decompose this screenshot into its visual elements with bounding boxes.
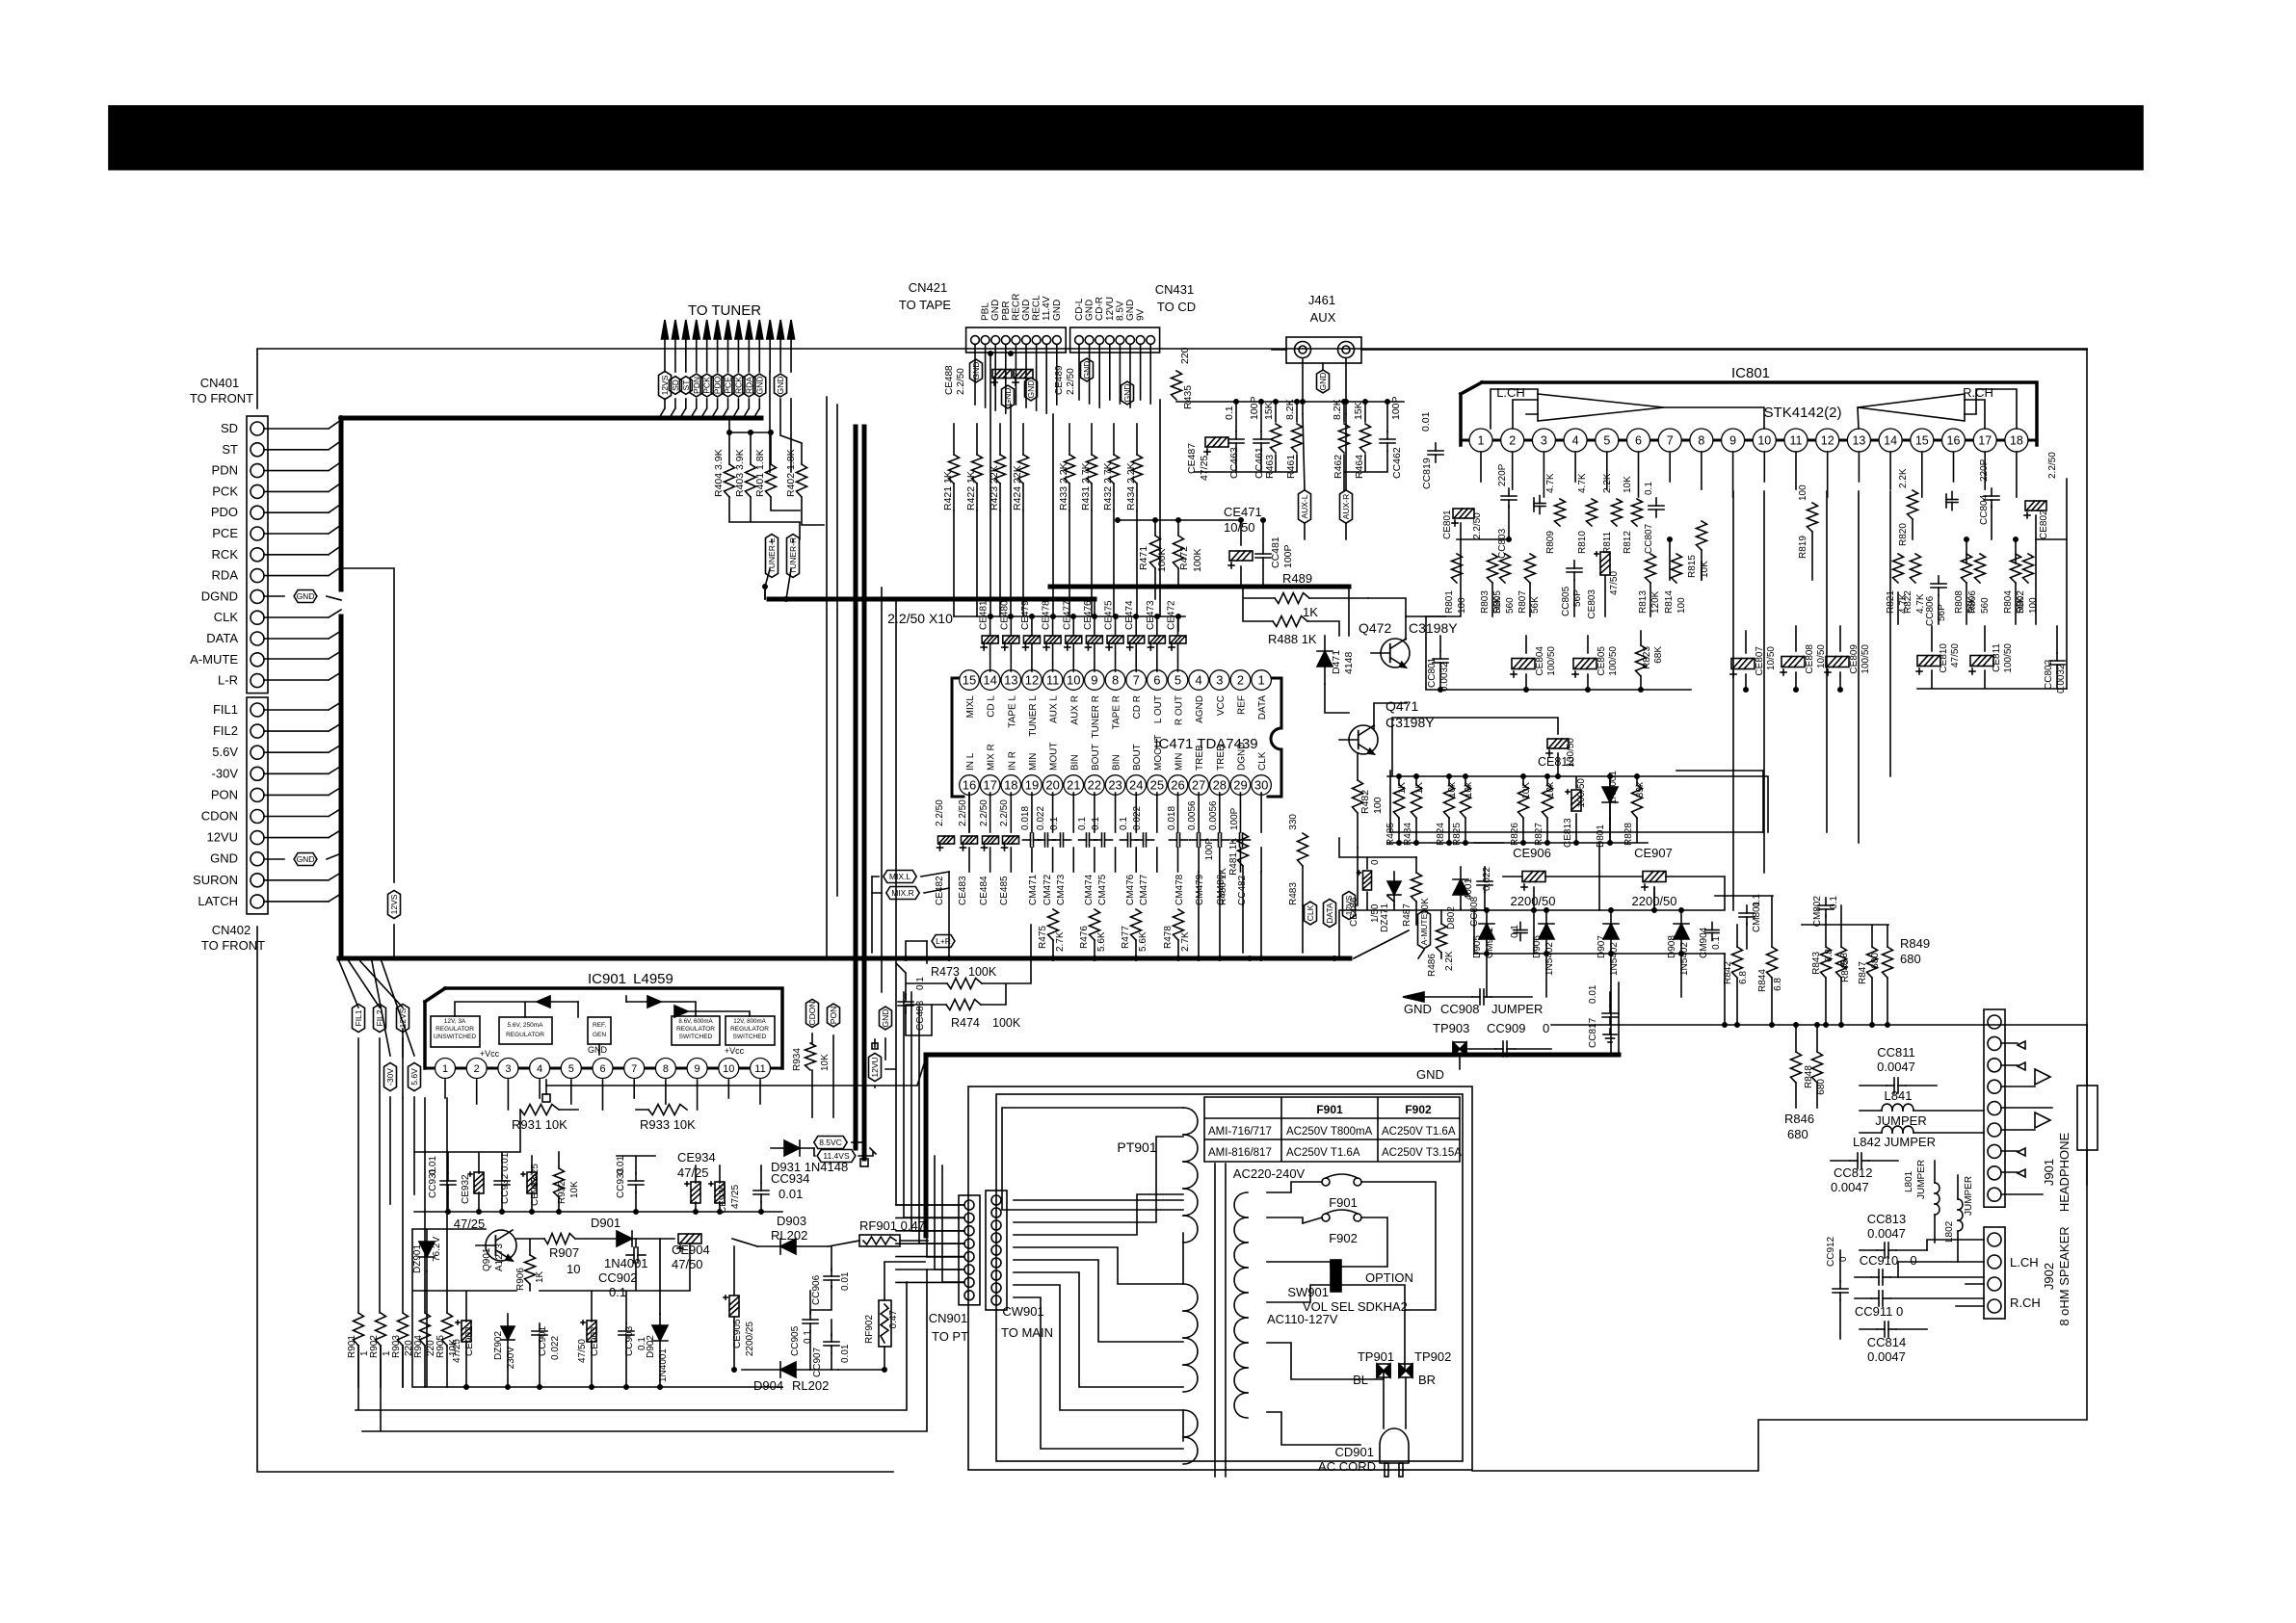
svg-text:2: 2: [474, 1063, 480, 1075]
svg-text:-30V: -30V: [385, 1068, 395, 1086]
svg-text:CE808: CE808: [1805, 644, 1815, 674]
svg-text:19: 19: [1025, 778, 1039, 793]
resistor R901: [354, 1313, 364, 1346]
wire flag fan: [339, 961, 414, 1056]
svg-text:AC250V T3.15A: AC250V T3.15A: [1382, 1147, 1462, 1159]
fuse F902: [1322, 1214, 1330, 1221]
resistor R404: [725, 464, 735, 497]
svg-text:11.4V: 11.4V: [1042, 296, 1052, 321]
capacitor CC481: [1255, 553, 1271, 555]
fuse F901: [1322, 1178, 1330, 1186]
svg-text:0.1: 0.1: [1091, 817, 1101, 830]
resistor R803: [1488, 554, 1498, 583]
svg-text:BL: BL: [1353, 1373, 1368, 1387]
svg-text:R473: R473: [931, 965, 960, 979]
svg-text:IC901: IC901: [588, 971, 626, 987]
svg-text:12: 12: [1821, 434, 1834, 448]
svg-text:GND: GND: [210, 851, 238, 866]
svg-text:9: 9: [1091, 673, 1097, 688]
svg-text:2.2/50: 2.2/50: [1472, 512, 1483, 539]
svg-text:100: 100: [1372, 797, 1384, 814]
svg-text:CC912: CC912: [1826, 1236, 1836, 1267]
svg-text:0.1: 0.1: [1644, 482, 1654, 495]
ground flag CN421-1: [970, 359, 983, 382]
svg-text:CD-L: CD-L: [1074, 298, 1085, 321]
svg-text:AGND: AGND: [1195, 695, 1205, 723]
capacitor CE801: [1453, 509, 1474, 518]
wire CN401 signal leads: [264, 420, 341, 429]
svg-text:R814: R814: [1664, 590, 1675, 614]
resistor R488: [1273, 616, 1307, 627]
svg-text:Q901: Q901: [482, 1247, 492, 1271]
resistor R422: [972, 455, 983, 484]
svg-text:0.01: 0.01: [779, 1187, 803, 1201]
svg-text:2.2/50: 2.2/50: [956, 368, 966, 395]
svg-text:MIN: MIN: [1174, 753, 1185, 771]
svg-text:5.6V: 5.6V: [409, 1068, 419, 1086]
svg-text:R812: R812: [1623, 531, 1633, 554]
capacitor CC463: [1228, 438, 1244, 440]
capacitor CE807: [1731, 659, 1755, 669]
svg-text:100P: 100P: [1229, 807, 1240, 830]
coil PT901 primary-2: [1183, 1284, 1198, 1311]
svg-text:CE484: CE484: [979, 876, 990, 905]
net flag 5.6V: [409, 1062, 421, 1090]
svg-text:CC819: CC819: [1421, 458, 1433, 489]
svg-text:CM479: CM479: [1195, 874, 1205, 905]
svg-text:8 oHM SPEAKER: 8 oHM SPEAKER: [2057, 1226, 2072, 1325]
capacitor CC807: [1649, 505, 1664, 507]
svg-text:RDA: RDA: [212, 568, 239, 583]
svg-text:F902: F902: [1329, 1231, 1358, 1245]
capacitor CM801: [1739, 912, 1755, 914]
svg-text:REGULATOR: REGULATOR: [506, 1032, 544, 1038]
svg-text:100/50: 100/50: [2003, 643, 2014, 673]
capacitor CE902: [462, 1321, 471, 1342]
testpoint TP902: [1399, 1364, 1406, 1377]
svg-text:18: 18: [1004, 778, 1017, 793]
svg-text:R807: R807: [1517, 590, 1528, 614]
svg-text:CE487: CE487: [1186, 443, 1198, 474]
wire bus I: [924, 1055, 929, 1236]
svg-text:29: 29: [1233, 778, 1247, 793]
connector J461: [1286, 337, 1361, 363]
svg-text:R849: R849: [1900, 936, 1930, 951]
ic-box regulator2: [499, 1017, 552, 1044]
svg-text:GND: GND: [1122, 384, 1132, 403]
svg-text:CC804: CC804: [1979, 494, 1990, 525]
svg-text:23: 23: [1108, 778, 1122, 793]
svg-text:CM475: CM475: [1097, 874, 1108, 905]
svg-text:R907: R907: [549, 1245, 579, 1260]
wire q471 links: [1243, 684, 1358, 953]
svg-text:DZ471: DZ471: [1380, 903, 1390, 932]
svg-text:-30V: -30V: [212, 766, 239, 780]
svg-text:2.2K: 2.2K: [1898, 468, 1909, 488]
svg-text:680: 680: [1900, 952, 1921, 966]
svg-text:2.2/50: 2.2/50: [2047, 452, 2058, 479]
svg-text:CC807: CC807: [1644, 523, 1654, 554]
capacitor CC931: [440, 1180, 456, 1182]
svg-text:FIL2: FIL2: [213, 723, 238, 738]
capacitors CM471-CC482 row: [1030, 833, 1032, 847]
svg-text:CE802: CE802: [2039, 510, 2049, 539]
svg-text:R461: R461: [1285, 455, 1297, 479]
svg-text:TREB: TREB: [1216, 745, 1227, 771]
svg-text:R403 3.9K: R403 3.9K: [734, 449, 746, 497]
svg-text:1: 1: [442, 1063, 448, 1075]
svg-text:REF,: REF,: [593, 1022, 606, 1029]
wire J902 leads: [1898, 1240, 1984, 1306]
svg-text:12V, 3A: 12V, 3A: [444, 1018, 466, 1025]
wire R471 top: [1118, 520, 1263, 587]
svg-text:100/50: 100/50: [1608, 646, 1619, 676]
wire R40x bottom: [729, 497, 800, 539]
resistor R802: [2023, 554, 2034, 583]
svg-text:0.0056: 0.0056: [1208, 800, 1219, 830]
svg-text:BIN: BIN: [1069, 754, 1080, 771]
svg-text:PT901: PT901: [1117, 1139, 1156, 1155]
svg-text:GND: GND: [297, 591, 315, 601]
svg-text:FIL2: FIL2: [375, 1009, 384, 1026]
svg-text:TREB: TREB: [1195, 745, 1205, 771]
wire y1127: [546, 1058, 926, 1086]
svg-text:SW901: SW901: [1287, 1285, 1329, 1299]
resistor R806: [1975, 554, 1986, 583]
resistor R907: [544, 1234, 575, 1244]
svg-text:220: 220: [1179, 347, 1191, 364]
jack symbol: [2077, 1086, 2098, 1150]
svg-text:D907: D907: [1597, 935, 1607, 958]
svg-text:7: 7: [1667, 434, 1674, 448]
svg-text:+Vcc: +Vcc: [725, 1046, 745, 1056]
svg-text:REF: REF: [1236, 695, 1247, 715]
core PT901: [1214, 1164, 1216, 1477]
svg-text:RDA: RDA: [744, 377, 753, 394]
svg-text:12VU: 12VU: [1105, 297, 1116, 321]
svg-text:FIL1: FIL1: [213, 702, 238, 717]
svg-text:TO FRONT: TO FRONT: [201, 938, 265, 953]
svg-text:D901: D901: [591, 1216, 620, 1230]
svg-text:2: 2: [1237, 673, 1244, 688]
svg-text:CC805: CC805: [1561, 586, 1571, 616]
svg-text:GND: GND: [1026, 380, 1036, 399]
svg-text:R462: R462: [1333, 455, 1344, 479]
svg-text:PCE: PCE: [212, 526, 238, 540]
wire tuner bus links: [765, 587, 1349, 636]
svg-text:DATA: DATA: [1325, 903, 1334, 924]
svg-text:7: 7: [631, 1063, 637, 1075]
diode DZ901: [419, 1242, 435, 1257]
diode D906: [1539, 924, 1554, 939]
svg-text:TUNER R: TUNER R: [1091, 695, 1101, 738]
net flag TUNER-R: [787, 535, 800, 578]
svg-text:20: 20: [1045, 778, 1059, 793]
svg-text:0.01: 0.01: [428, 1156, 438, 1175]
svg-text:GND: GND: [1404, 1002, 1432, 1016]
svg-text:CC910: CC910: [1860, 1253, 1898, 1268]
capacitor CC804: [1984, 495, 1999, 497]
capacitor CC905: [803, 1319, 818, 1321]
svg-text:R801: R801: [1444, 590, 1455, 614]
net flag AUX-L: [1299, 490, 1311, 523]
resistor R848b: [1812, 1052, 1823, 1083]
svg-text:100P: 100P: [1249, 396, 1260, 420]
svg-text:CM474: CM474: [1084, 874, 1095, 905]
svg-text:D904: D904: [753, 1378, 783, 1393]
coil PT901 primary-3: [1183, 1410, 1198, 1437]
svg-text:R811: R811: [1602, 531, 1613, 554]
node ic901 pin4 sq: [542, 1094, 550, 1102]
svg-text:F901: F901: [1329, 1195, 1358, 1210]
svg-text:9V: 9V: [1136, 308, 1147, 321]
coil PT901 secondary: [1234, 1192, 1248, 1217]
svg-text:12VU: 12VU: [206, 830, 238, 845]
testpoint TP903: [1453, 1042, 1460, 1056]
svg-text:CE483: CE483: [958, 876, 968, 905]
wire IC471 bottom leads: [968, 793, 970, 832]
svg-text:R806: R806: [1967, 590, 1978, 614]
capacitor CC909: [1502, 1041, 1504, 1057]
svg-text:DZ902: DZ902: [493, 1331, 504, 1360]
svg-text:0.022: 0.022: [1482, 867, 1492, 891]
svg-text:17: 17: [983, 778, 996, 793]
svg-text:0.1: 0.1: [637, 1337, 647, 1350]
connector CN421: [966, 327, 1067, 353]
svg-text:AUX: AUX: [1310, 310, 1336, 325]
svg-text:6.8: 6.8: [1824, 949, 1834, 962]
diode D931: [784, 1140, 800, 1156]
svg-text:R810: R810: [1577, 531, 1588, 554]
resistor R807: [1525, 554, 1536, 583]
capacitor CC817: [1602, 1012, 1618, 1014]
svg-text:GND: GND: [990, 300, 1001, 321]
ic IC801 pins: [1461, 439, 2037, 442]
resistor R481: [1238, 833, 1249, 866]
wire J461 leads: [1272, 350, 2087, 414]
svg-text:L842 JUMPER: L842 JUMPER: [1853, 1135, 1936, 1149]
svg-text:BOUT: BOUT: [1132, 744, 1143, 771]
svg-text:MIX R: MIX R: [987, 744, 997, 771]
svg-text:GND: GND: [1052, 300, 1063, 321]
svg-text:2.7K: 2.7K: [1180, 931, 1191, 952]
svg-text:1K: 1K: [535, 1270, 545, 1283]
svg-text:2.7K: 2.7K: [1055, 931, 1066, 952]
svg-text:26: 26: [1171, 778, 1184, 793]
svg-text:10K: 10K: [1623, 476, 1633, 493]
svg-text:2.2K: 2.2K: [1602, 473, 1613, 493]
svg-text:GND: GND: [1125, 300, 1136, 321]
svg-text:R802: R802: [2016, 590, 2026, 614]
svg-text:R822: R822: [1903, 590, 1913, 614]
svg-text:15: 15: [1915, 434, 1929, 448]
svg-text:100/50: 100/50: [1566, 738, 1576, 768]
svg-text:AUX-L: AUX-L: [1300, 494, 1309, 518]
svg-text:SWITCHED: SWITCHED: [733, 1034, 767, 1040]
resistor R812: [1632, 499, 1643, 526]
svg-text:6: 6: [1153, 673, 1160, 688]
svg-text:R483: R483: [1288, 882, 1299, 905]
svg-text:GND: GND: [1416, 1067, 1444, 1082]
svg-text:R803: R803: [1480, 590, 1491, 614]
svg-text:11.4VS: 11.4VS: [823, 1151, 850, 1161]
svg-text:J902: J902: [2042, 1263, 2056, 1290]
svg-text:R421 1K: R421 1K: [942, 471, 954, 510]
ic-box refgen: [588, 1017, 611, 1044]
net flag CDON: [806, 999, 819, 1027]
resistor R474: [946, 1000, 981, 1010]
svg-text:CDON: CDON: [807, 1001, 817, 1025]
svg-text:SD: SD: [221, 421, 238, 435]
diode D902: [652, 1325, 668, 1341]
zener DZ902: [501, 1326, 515, 1340]
capacitor CC902: [633, 1247, 635, 1263]
svg-text:27: 27: [1192, 778, 1205, 793]
resistor R811: [1612, 499, 1623, 526]
svg-text:D801: D801: [1596, 825, 1606, 848]
resistor R473: [947, 979, 982, 989]
resistor R805: [1500, 554, 1511, 583]
net flag 12VU-r: [869, 1053, 882, 1081]
diode D907: [1603, 924, 1619, 939]
title bar: [109, 106, 2143, 170]
svg-text:1N4001: 1N4001: [604, 1256, 648, 1270]
svg-text:18: 18: [2010, 434, 2023, 448]
resistor R483: [1298, 833, 1308, 866]
capacitor CC908: [1479, 989, 1481, 1005]
resistor R824: [1444, 785, 1455, 818]
svg-text:22: 22: [1088, 778, 1101, 793]
svg-text:DGND: DGND: [201, 589, 238, 603]
svg-text:PBL: PBL: [981, 302, 991, 321]
opamp R.CH: [1858, 394, 1965, 421]
svg-text:DGND: DGND: [1236, 743, 1247, 771]
svg-text:0.01: 0.01: [840, 1344, 851, 1363]
svg-text:100/50: 100/50: [1576, 778, 1587, 808]
svg-text:GND: GND: [1082, 361, 1092, 380]
svg-text:MOOUT: MOOUT: [1153, 735, 1164, 771]
resistor R421: [949, 455, 960, 484]
svg-text:3: 3: [1216, 673, 1223, 688]
svg-text:L.CH: L.CH: [1496, 385, 1525, 400]
svg-text:CC806: CC806: [1925, 595, 1936, 626]
svg-text:ST: ST: [222, 442, 238, 457]
resistor R471: [1150, 536, 1161, 568]
svg-text:R823: R823: [1642, 646, 1652, 669]
svg-text:CC905: CC905: [790, 1325, 801, 1356]
svg-text:5: 5: [568, 1063, 574, 1075]
svg-text:TUNER-L: TUNER-L: [767, 537, 777, 573]
svg-text:11: 11: [754, 1063, 765, 1075]
ic-outline IC901: [425, 988, 782, 1068]
resistor R828: [1632, 785, 1643, 818]
resistor R906: [525, 1255, 536, 1284]
svg-text:2200/50: 2200/50: [1511, 894, 1556, 908]
svg-text:UNSWITCHED: UNSWITCHED: [434, 1034, 476, 1040]
svg-text:R815: R815: [1687, 555, 1698, 578]
node bus E end: [860, 1159, 868, 1166]
svg-text:J461: J461: [1308, 293, 1335, 307]
svg-text:GND: GND: [776, 377, 785, 395]
svg-text:CN431: CN431: [1155, 282, 1194, 297]
resistor R849: [1883, 947, 1893, 978]
wire cluster bottoms: [1195, 451, 1387, 491]
svg-text:100K: 100K: [968, 965, 997, 979]
wire right frame links: [1474, 479, 2067, 1055]
svg-text:0.1: 0.1: [1077, 817, 1088, 830]
svg-text:24: 24: [1129, 778, 1143, 793]
svg-text:3: 3: [505, 1063, 511, 1075]
svg-text:R805: R805: [1492, 590, 1503, 614]
capacitor CE934: [691, 1182, 700, 1203]
capacitor CE811: [1970, 656, 1993, 667]
capacitor CC911: [1878, 1291, 1880, 1306]
arrow ic901-1: [537, 996, 550, 1008]
svg-text:1K: 1K: [1303, 605, 1318, 619]
svg-text:0.47: 0.47: [888, 1310, 899, 1329]
svg-text:CE489: CE489: [1054, 365, 1065, 395]
ground flag CN421-2: [1002, 385, 1015, 408]
svg-text:IN R: IN R: [1007, 751, 1017, 771]
svg-text:CLK: CLK: [1306, 904, 1315, 921]
svg-text:L4959: L4959: [633, 971, 673, 987]
resistor R476: [1090, 909, 1100, 940]
svg-text:CE488: CE488: [944, 365, 955, 395]
resistor R848a: [1791, 1052, 1802, 1083]
wire CN401 lower leads: [264, 610, 341, 617]
svg-text:4: 4: [537, 1063, 542, 1075]
capacitor CC903: [619, 1330, 634, 1332]
ic IC901 pins: [425, 1067, 782, 1070]
svg-text:0: 0: [1910, 1253, 1916, 1268]
capacitor CC808: [1477, 880, 1492, 882]
svg-text:GND: GND: [881, 1009, 890, 1028]
resistor R401: [766, 464, 777, 497]
svg-text:AC CORD: AC CORD: [1318, 1459, 1376, 1474]
svg-text:CLK: CLK: [1257, 751, 1268, 771]
wire Q47x: [1358, 616, 1445, 848]
svg-text:14: 14: [983, 673, 996, 688]
inductor L802: [1958, 1199, 1963, 1210]
svg-text:Q471: Q471: [1386, 698, 1418, 714]
svg-text:TUNER L: TUNER L: [1028, 695, 1039, 737]
svg-text:0.1: 0.1: [1224, 406, 1235, 420]
resistor R931: [520, 1105, 559, 1115]
svg-text:AC220-240V: AC220-240V: [1233, 1166, 1306, 1181]
svg-text:CM471: CM471: [1028, 874, 1039, 905]
net flag 12VS-ic: [397, 1004, 409, 1032]
svg-text:RCK: RCK: [733, 377, 743, 394]
svg-text:4: 4: [1196, 673, 1202, 688]
capacitor CC461: [1254, 438, 1269, 440]
box PSU inner: [996, 1094, 1463, 1461]
svg-text:8.6V, 600mA: 8.6V, 600mA: [678, 1018, 713, 1025]
svg-text:F902: F902: [1405, 1103, 1432, 1116]
wire IC901 inner: [455, 996, 750, 1055]
svg-text:REGULATOR: REGULATOR: [435, 1026, 474, 1033]
svg-text:0.1: 0.1: [1711, 936, 1722, 950]
svg-text:CE472: CE472: [1167, 600, 1177, 630]
svg-text:CE932: CE932: [461, 1174, 471, 1204]
svg-text:GND: GND: [1003, 388, 1013, 406]
svg-text:AC250V T1.6A: AC250V T1.6A: [1286, 1147, 1360, 1159]
diode D901: [617, 1231, 632, 1246]
svg-text:L.CH: L.CH: [2010, 1255, 2039, 1270]
capacitor CE809: [1826, 657, 1849, 668]
svg-text:MIXL: MIXL: [965, 695, 976, 719]
svg-text:SWITCHED: SWITCHED: [679, 1034, 713, 1040]
svg-text:GEN: GEN: [593, 1032, 606, 1038]
